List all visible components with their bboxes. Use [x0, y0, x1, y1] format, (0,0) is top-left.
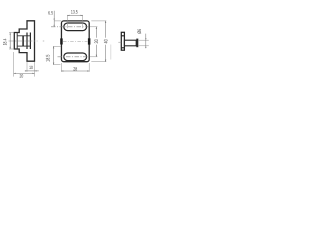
dim pin extension bottom	[139, 45, 149, 47]
front frame	[61, 21, 89, 62]
top slot centerline	[51, 26, 89, 28]
top slot	[64, 23, 87, 31]
dim 18.5 extension top	[53, 45, 61, 47]
magnet core thick vertical	[22, 36, 24, 46]
pin shank	[124, 40, 136, 46]
magnet box inner bottom	[17, 45, 30, 47]
svg-text:40: 40	[104, 39, 110, 43]
svg-text:28: 28	[73, 66, 77, 72]
bottom slot centerline	[58, 56, 90, 58]
centerline left view	[9, 40, 38, 42]
dim 10 extension left	[26, 62, 28, 72]
svg-text:13.5: 13.5	[71, 10, 78, 16]
dim 20 extension left	[13, 52, 15, 77]
dim 18.4 line	[9, 33, 11, 50]
dim 40 line	[105, 21, 107, 62]
bottom slot	[64, 53, 87, 61]
svg-text:6.5: 6.5	[48, 11, 53, 17]
dim 20 extension right (shared)	[34, 72, 36, 77]
right side notch	[88, 38, 91, 44]
svg-text:18.4: 18.4	[2, 38, 8, 45]
plate chamfer bottom	[121, 47, 124, 49]
dim 13.5 line	[67, 14, 82, 16]
magnet box inner top	[17, 35, 30, 37]
dim 18.4 extension bottom	[9, 48, 14, 50]
dim text 40	[104, 38, 108, 45]
svg-text:30: 30	[94, 39, 100, 43]
dim 30 line	[95, 27, 97, 57]
magnet box right edge	[29, 33, 31, 50]
housing outline	[14, 21, 34, 61]
dim 13.5 extension right	[82, 15, 84, 28]
left side notch	[60, 38, 63, 44]
dim pin line	[145, 34, 147, 49]
dim 20 line	[14, 72, 35, 74]
dim 30/40 bottom extension from frame	[91, 61, 106, 63]
svg-text:20: 20	[20, 74, 24, 79]
dim 10 extension right	[34, 62, 36, 72]
dim 18.5 extension bottom	[53, 64, 60, 66]
dim text 30	[94, 38, 98, 45]
dim 30/40 top extension from frame	[91, 20, 106, 22]
counter plate outer	[121, 32, 124, 50]
pin end flange	[136, 39, 138, 48]
svg-text:10: 10	[29, 65, 33, 70]
pin centerline	[118, 41, 121, 43]
dim 6.5 line	[53, 11, 55, 27]
dim 30 top extension from slot center	[90, 26, 97, 28]
svg-text:18.5: 18.5	[46, 54, 52, 61]
mid centerline	[63, 40, 88, 42]
dim 13.5 extension left	[66, 15, 68, 28]
dim 28 extension left	[60, 63, 62, 72]
faint line artifact	[110, 45, 112, 60]
dim 18.4 extension top	[9, 32, 14, 34]
magnet core vertical at x27	[26, 33, 28, 50]
dim 28 line	[61, 70, 89, 72]
dim 6.5 extension to frame top	[54, 20, 61, 22]
dim 10 line	[25, 70, 39, 72]
dim 30 bottom extension from slot center	[90, 56, 97, 58]
svg-text:Ø6: Ø6	[137, 29, 143, 34]
dim 28 extension right	[88, 63, 90, 72]
plate chamfer top	[121, 35, 124, 37]
dim 18.5 line	[53, 46, 55, 64]
dim pin extension top	[139, 39, 149, 41]
magnet box inner left vertical	[16, 33, 18, 50]
